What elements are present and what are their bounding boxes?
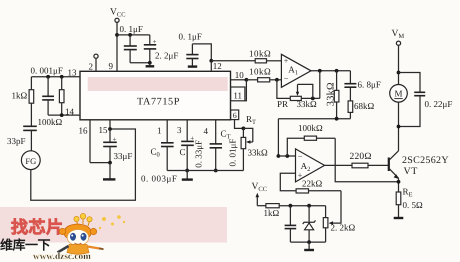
wire pin 12 stub [211,61,222,72]
resistor RE 0.5 [396,186,423,217]
wire Vcc to pin 9 [116,22,118,71]
capacitor 0.1uF (pin 12) [179,32,212,66]
svg-text:100kΩ: 100kΩ [298,123,323,133]
svg-text:www.dzsc.com: www.dzsc.com [33,252,91,262]
capacitor 0.1uF (C near Vcc) [120,24,143,63]
wire A1 output [311,70,350,72]
wire pin 13 [31,68,80,78]
IC U1 TA7715P body [80,71,231,120]
node 100k bottom [60,113,64,117]
resistor 100k (A2 feedback) [287,123,335,156]
node zener branch [307,204,311,208]
watermark pink band inside IC [88,77,228,91]
svg-text:33μF: 33μF [114,151,133,161]
wire feedback to emitter [335,138,398,182]
svg-text:FG: FG [25,156,36,166]
svg-text:11: 11 [233,90,242,100]
node pin 15 [108,127,112,131]
node pot wiper join [311,97,315,101]
op-amp A2 [296,149,325,182]
resistor 2.2k [323,206,355,242]
svg-text:0. 1μF: 0. 1μF [179,32,202,42]
pin 11 stub box [231,87,245,101]
capacitor 33pF [7,126,37,151]
wire feedback down [319,71,321,99]
capacitor 0.22uF [399,92,453,126]
resistor 1k (bottom) [257,204,325,218]
ground (0.1uF pin12 cap) [188,65,197,67]
node cap return [397,125,401,129]
capacitor (zener filter) [285,206,297,242]
svg-text:0. 22μF: 0. 22μF [425,99,453,109]
pin 2 terminal [89,54,99,71]
svg-text:33kΩ: 33kΩ [297,99,318,109]
resistor 220 [350,152,389,168]
wire zener rail bottom [290,241,325,243]
wire pin 16 [79,120,111,163]
svg-text:+: + [113,135,117,143]
ground (zener) [304,242,314,250]
motor M [390,85,408,103]
wire down to A2 minus [277,119,279,156]
node VM junction [397,71,401,75]
wire VM down [398,45,400,84]
svg-text:PR: PR [277,99,288,109]
svg-text:维库一下: 维库一下 [0,238,51,253]
node 0.001uF top [46,75,50,79]
wire A1 minus to pot [277,80,290,99]
wire pin 14 [48,107,80,117]
FG generator [21,151,40,170]
svg-text:10: 10 [235,70,245,80]
ground (cap row) [182,171,193,180]
svg-text:+: + [153,38,157,46]
ground (33uF) [103,163,115,180]
svg-text:16: 16 [79,125,89,135]
svg-text:−: − [284,74,289,84]
capacitor 0.001uF [42,77,54,115]
wire pot right [301,97,320,99]
wire A2 output [325,164,353,166]
resistor 1k (left) [12,77,34,126]
resistor 10k (upper) [249,49,281,63]
svg-text:2. 2μF: 2. 2μF [155,51,178,61]
wire A2 minus input [278,155,295,157]
svg-text:−: − [298,151,303,161]
svg-text:10kΩ: 10kΩ [249,49,271,59]
wire Vcc to caps [117,34,150,36]
svg-text:12: 12 [213,61,222,71]
pin 6 stub box [231,110,239,120]
svg-text:0. 1μF: 0. 1μF [120,24,143,34]
wire 22k to 2.2k tap arrow [329,191,341,225]
wire FG loop to pin 15 [31,129,136,200]
wire pin 3 [177,120,187,141]
capacitor 33uF [103,129,132,163]
VM terminal [392,29,405,46]
svg-text:9: 9 [109,61,114,71]
watermark red title [0,238,51,253]
wire A2 plus input [280,173,296,191]
node ground branch [185,169,189,173]
svg-text:6. 8μF: 6. 8μF [358,79,381,89]
svg-text:33kΩ: 33kΩ [326,82,337,106]
wire cap bottoms [130,62,150,64]
node pin 12 [209,59,213,63]
node Vcc junction [115,33,119,37]
Vcc terminal (bottom) [252,182,268,206]
wire bottom node [278,118,350,120]
wire cap row bottom [167,170,243,172]
svg-text:0. 33μF: 0. 33μF [194,140,204,168]
wire motor to collector [398,102,400,151]
op-amp A1 [281,54,311,87]
capacitor C (electrolytic) [180,135,195,171]
node 100k top [60,75,64,79]
wire pin 4 [204,120,216,144]
svg-text:0. 001μF: 0. 001μF [31,65,63,75]
svg-text:3: 3 [177,125,182,135]
svg-text:0. 5Ω: 0. 5Ω [403,200,424,210]
svg-text:1kΩ: 1kΩ [264,208,280,218]
svg-text:TA7715P: TA7715P [137,96,180,107]
capacitor 0.33uF [194,140,223,171]
watermark pink band bottom [0,207,227,243]
potentiometer PR 33k [277,84,317,109]
node A2 minus [277,154,281,158]
watermark url [33,252,91,262]
wire pin12 to R 10k [211,60,255,62]
svg-text:100kΩ: 100kΩ [38,117,63,127]
node cap bottom junction [148,61,152,65]
resistor 10k (lower) [246,66,281,82]
capacitor 6.8uF [344,71,380,101]
resistor 100k (left) [38,77,65,127]
zener diode [303,206,316,242]
svg-text:10kΩ: 10kΩ [249,66,271,76]
wire RT tap arrow [243,128,252,143]
svg-text:M: M [394,89,402,99]
node zener bottom [307,240,311,244]
svg-text:2: 2 [89,62,94,72]
svg-text:14: 14 [65,107,75,117]
node 0.33 bottom [214,169,218,173]
wire pin 1 [157,120,167,143]
resistor 68k [348,101,374,119]
wire pin10 to pin11 [245,80,247,101]
wire pin 6 to RT [235,120,244,129]
capacitor 2.2uF [144,35,179,63]
transistor VT 2SC2562Y [389,151,449,192]
svg-text:6: 6 [233,111,237,120]
wire pin 15 [99,120,111,135]
svg-text:1: 1 [157,125,162,135]
svg-text:22kΩ: 22kΩ [302,178,323,188]
svg-text:33kΩ: 33kΩ [248,148,269,158]
resistor 22k [296,178,341,193]
svg-text:13: 13 [68,68,78,78]
node cap branch (bottom) [289,204,293,208]
node output feedback [318,69,322,73]
watermark seal text [11,218,64,237]
wire to motor cap [399,73,421,92]
node RT top [242,126,246,130]
resistor 33k (vertical, A1 load) [326,71,339,119]
svg-text:33pF: 33pF [7,136,26,146]
svg-text:2. 2kΩ: 2. 2kΩ [331,223,356,233]
resistor RT 33k [241,128,268,170]
node cap branch [128,33,132,37]
ground (RE) [394,217,404,219]
node output 33k [335,69,339,73]
capacitor C0 [151,143,174,171]
svg-text:C: C [180,147,186,157]
node A1 inverting input [275,78,279,82]
wire pin 10 [231,70,247,80]
svg-text:1kΩ: 1kΩ [12,91,28,101]
node pin10 [245,78,249,82]
svg-text:15: 15 [99,125,109,135]
svg-text:0. 01μF: 0. 01μF [228,139,238,167]
node emitter [397,180,401,184]
node 33uF bottom [108,161,112,165]
watermark mascot [58,214,126,255]
svg-text:找芯片: 找芯片 [11,218,64,237]
node 100k left [285,154,289,158]
svg-text:4: 4 [204,126,209,136]
node 33k bottom [335,117,339,121]
svg-text:VT: VT [404,166,418,177]
Vcc terminal (top) [110,8,126,23]
svg-text:68kΩ: 68kΩ [354,101,375,111]
svg-text:0. 003μF: 0. 003μF [141,173,177,183]
svg-text:220Ω: 220Ω [350,152,372,162]
ground (top caps) [146,63,155,67]
svg-text:2SC2562Y: 2SC2562Y [402,155,449,166]
